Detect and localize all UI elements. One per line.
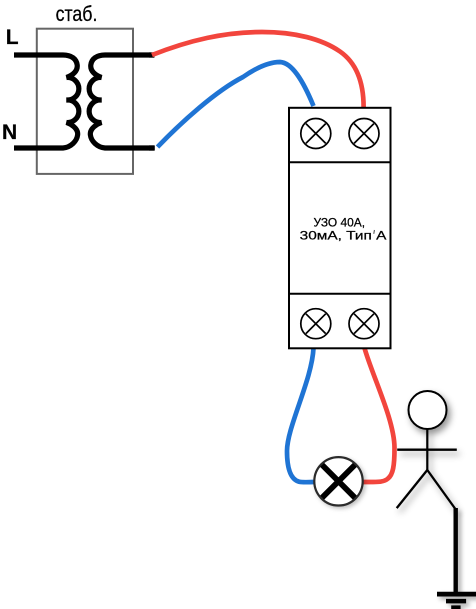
svg-text:стаб.: стаб. [56,2,98,26]
wire blue from RCD bottom left to lamp [287,348,314,482]
transformer T1 primary winding (left) [14,55,79,148]
RCD terminal bottom-right [349,309,379,339]
lamp EL1 [314,457,362,505]
apostrophe artifact mark [373,230,376,234]
ground lead wire [437,508,476,607]
wire red L from transformer to RCD top right [152,32,364,107]
RCD terminal top-right [349,119,379,149]
wire stub bottom-right [149,145,155,150]
RCD terminal top-left [301,119,331,149]
svg-text:L: L [6,26,19,49]
svg-text:N: N [2,121,17,144]
person left leg [397,470,428,508]
ground symbol [437,592,476,597]
RCD terminal bottom-left [301,309,331,339]
person body [426,430,428,471]
transformer T1 secondary winding (right) [89,55,154,148]
person arms [397,449,457,451]
RCD U1 body УЗО [289,108,391,348]
person right leg [427,470,455,509]
RCD top section divider [289,161,391,163]
wire red from RCD bottom right to lamp [364,348,395,482]
wire stub top-right [149,52,155,57]
RCD bottom section divider [289,293,391,295]
svg-text:УЗО 40А,: УЗО 40А, [314,215,366,229]
person head [409,391,447,429]
person [397,391,457,509]
stabilizer box [37,29,133,174]
wire blue N from transformer to RCD top left [158,62,314,147]
